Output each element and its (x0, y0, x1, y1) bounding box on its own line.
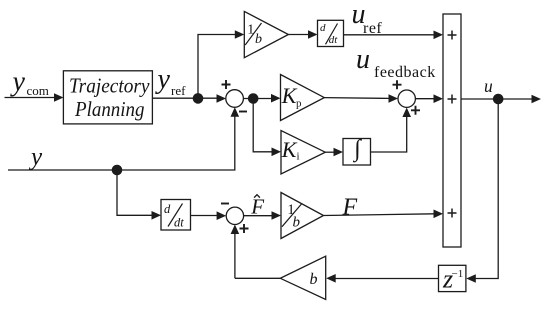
svg-text:b: b (310, 271, 318, 288)
svg-text:d: d (164, 202, 171, 216)
svg-text:b: b (293, 215, 301, 231)
svg-text:Planning: Planning (74, 97, 144, 121)
svg-text:F: F (250, 195, 264, 219)
svg-text:b: b (255, 32, 262, 47)
svg-text:ref: ref (171, 83, 186, 98)
svg-text:y: y (155, 64, 171, 95)
svg-text:y: y (10, 67, 26, 98)
svg-text:feedback: feedback (374, 64, 436, 81)
svg-text:F: F (342, 194, 358, 220)
svg-text:ref: ref (363, 20, 382, 37)
svg-text:K: K (281, 137, 298, 162)
svg-text:i: i (297, 151, 300, 163)
svg-text:com: com (27, 83, 49, 98)
svg-text:dt: dt (329, 34, 339, 46)
svg-text:d: d (320, 22, 326, 34)
svg-text:p: p (296, 97, 302, 109)
svg-text:u: u (484, 76, 493, 96)
svg-text:∫: ∫ (352, 136, 362, 163)
svg-text:−1: −1 (452, 268, 464, 280)
svg-text:u: u (356, 44, 370, 75)
svg-text:Trajectory: Trajectory (69, 73, 150, 97)
svg-text:1: 1 (247, 23, 254, 38)
svg-text:y: y (28, 144, 43, 171)
svg-text:dt: dt (174, 216, 184, 230)
